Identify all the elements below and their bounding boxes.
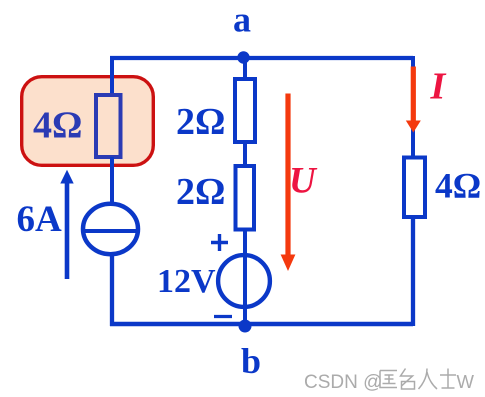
wire left branch upper segment [110,56,114,95]
current arrow I red on right branch [411,67,416,123]
polarity plus of 12V [211,234,228,251]
source current direction arrow 6A blue [65,183,70,279]
wire middle branch from node a [243,57,247,79]
svg-text:CSDN @: CSDN @ [304,372,382,393]
resistor 2ohm upper body [235,79,255,142]
svg-text:I: I [430,66,447,108]
resistor 4ohm left body [96,95,121,157]
polarity minus of 12V [214,315,232,318]
svg-text:a: a [233,0,251,40]
wire from lower 2ohm resistor to 12V source [243,229,247,256]
svg-text:2Ω: 2Ω [176,171,225,213]
node a junction dot [237,51,249,63]
wire right branch upper stub [411,56,415,75]
svg-text:2Ω: 2Ω [176,101,225,143]
wire left branch between resistor and current source [110,157,114,204]
wire through 12V source to node b [243,255,247,327]
wire right branch below arrow to resistor [411,128,415,158]
current source circle [83,204,138,254]
wire bottom horizontal b-rail [110,322,413,326]
watermark CJK glyph ming [401,369,415,390]
resistor 4ohm right body [404,158,425,218]
watermark CJK glyph ni [380,371,397,388]
current source bar [84,229,137,233]
svg-text:12V: 12V [157,263,216,300]
svg-text:W: W [457,371,475,392]
svg-text:b: b [241,341,261,381]
voltage source 12V circle [218,255,270,307]
resistor 2ohm lower body [236,166,255,230]
wire between the two 2ohm resistors [243,142,247,166]
wire top horizontal a-rail [110,56,413,60]
svg-text:4Ω: 4Ω [435,166,481,206]
watermark CJK glyph ren [419,369,438,390]
svg-text:4Ω: 4Ω [33,105,82,147]
svg-text:U: U [289,161,318,202]
node b junction dot [239,320,252,333]
voltage arrow U red in middle [285,94,290,257]
watermark CJK glyph shi [440,369,456,389]
svg-text:6A: 6A [17,199,63,240]
wire right branch lower segment [411,216,415,326]
wire left branch lower segment [110,253,114,326]
highlight box around left 4-ohm resistor [22,77,154,166]
